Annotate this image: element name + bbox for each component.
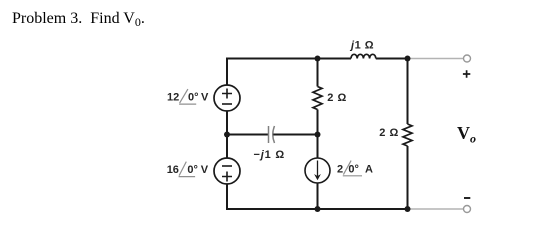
svg-text:j1 Ω: j1 Ω bbox=[349, 40, 374, 52]
terminal circle top bbox=[464, 55, 471, 62]
I1 arrowhead bbox=[314, 174, 321, 180]
svg-text:2 Ω: 2 Ω bbox=[379, 127, 399, 139]
svg-text:2: 2 bbox=[337, 164, 343, 176]
angle symbol for 12 V bbox=[179, 89, 196, 104]
wire: middle vertical upper x=317.5 bbox=[317, 59, 319, 87]
wire: bottom horizontal bbox=[226, 208, 408, 210]
svg-text:−j1 Ω: −j1 Ω bbox=[254, 149, 286, 161]
wire: left vertical x=227 bbox=[226, 59, 228, 210]
node dot top right bbox=[405, 56, 411, 62]
capacitor C1 -j1 ohm left plate bbox=[268, 126, 270, 143]
V1 plus sign bbox=[222, 89, 232, 99]
wire: right vertical lower bbox=[407, 146, 409, 209]
capacitor C1 right curved plate bbox=[273, 126, 275, 143]
svg-text:V: V bbox=[201, 164, 209, 176]
plus terminal label bbox=[463, 70, 470, 77]
svg-text:0°: 0° bbox=[187, 164, 198, 176]
angle symbol for 2 A bbox=[343, 161, 362, 176]
svg-text:Vo: Vo bbox=[457, 123, 476, 146]
voltage source V2 16 V circle bbox=[214, 158, 240, 184]
svg-text:Problem 3. Find V0.: Problem 3. Find V0. bbox=[12, 10, 145, 29]
svg-text:V: V bbox=[201, 92, 209, 104]
resistor R2 2 ohm zigzag (right) bbox=[403, 124, 412, 146]
node dot center middle bbox=[315, 132, 321, 138]
svg-text:16: 16 bbox=[167, 164, 179, 176]
node dot bottom middle bbox=[315, 206, 321, 212]
current source I1 circle bbox=[305, 158, 330, 183]
svg-text:12: 12 bbox=[167, 92, 179, 104]
wire: gray top to terminal bbox=[409, 58, 464, 60]
I1 arrow shaft bbox=[317, 161, 319, 178]
inductor L1 j1 ohm humps bbox=[351, 54, 376, 58]
node dot left middle bbox=[224, 132, 230, 138]
resistor R1 2 ohm zigzag (middle) bbox=[313, 87, 322, 110]
node dot bottom right bbox=[405, 206, 411, 212]
node dot top middle bbox=[315, 56, 321, 62]
wire: middle horizontal left of capacitor bbox=[227, 134, 269, 136]
V2 plus sign bbox=[222, 172, 232, 182]
V2 minus sign bbox=[222, 165, 232, 167]
svg-text:A: A bbox=[365, 164, 373, 176]
angle symbol for 16 V bbox=[179, 162, 196, 177]
wire: gray bottom to terminal bbox=[409, 208, 464, 210]
wire: right vertical upper x=407.5 bbox=[407, 59, 409, 125]
wire: middle vertical lower bbox=[317, 110, 319, 210]
wire: top horizontal right segment bbox=[376, 58, 408, 60]
wire: middle horizontal right of capacitor bbox=[273, 134, 317, 136]
svg-text:2 Ω: 2 Ω bbox=[327, 92, 347, 104]
voltage source V1 12 V circle bbox=[214, 85, 240, 111]
terminal circle bottom bbox=[464, 206, 471, 213]
svg-text:0°: 0° bbox=[188, 92, 199, 104]
V1 minus sign bbox=[222, 103, 232, 105]
wire: top horizontal left segment bbox=[226, 58, 351, 60]
minus terminal label bbox=[464, 197, 470, 199]
svg-text:0°: 0° bbox=[348, 164, 359, 176]
